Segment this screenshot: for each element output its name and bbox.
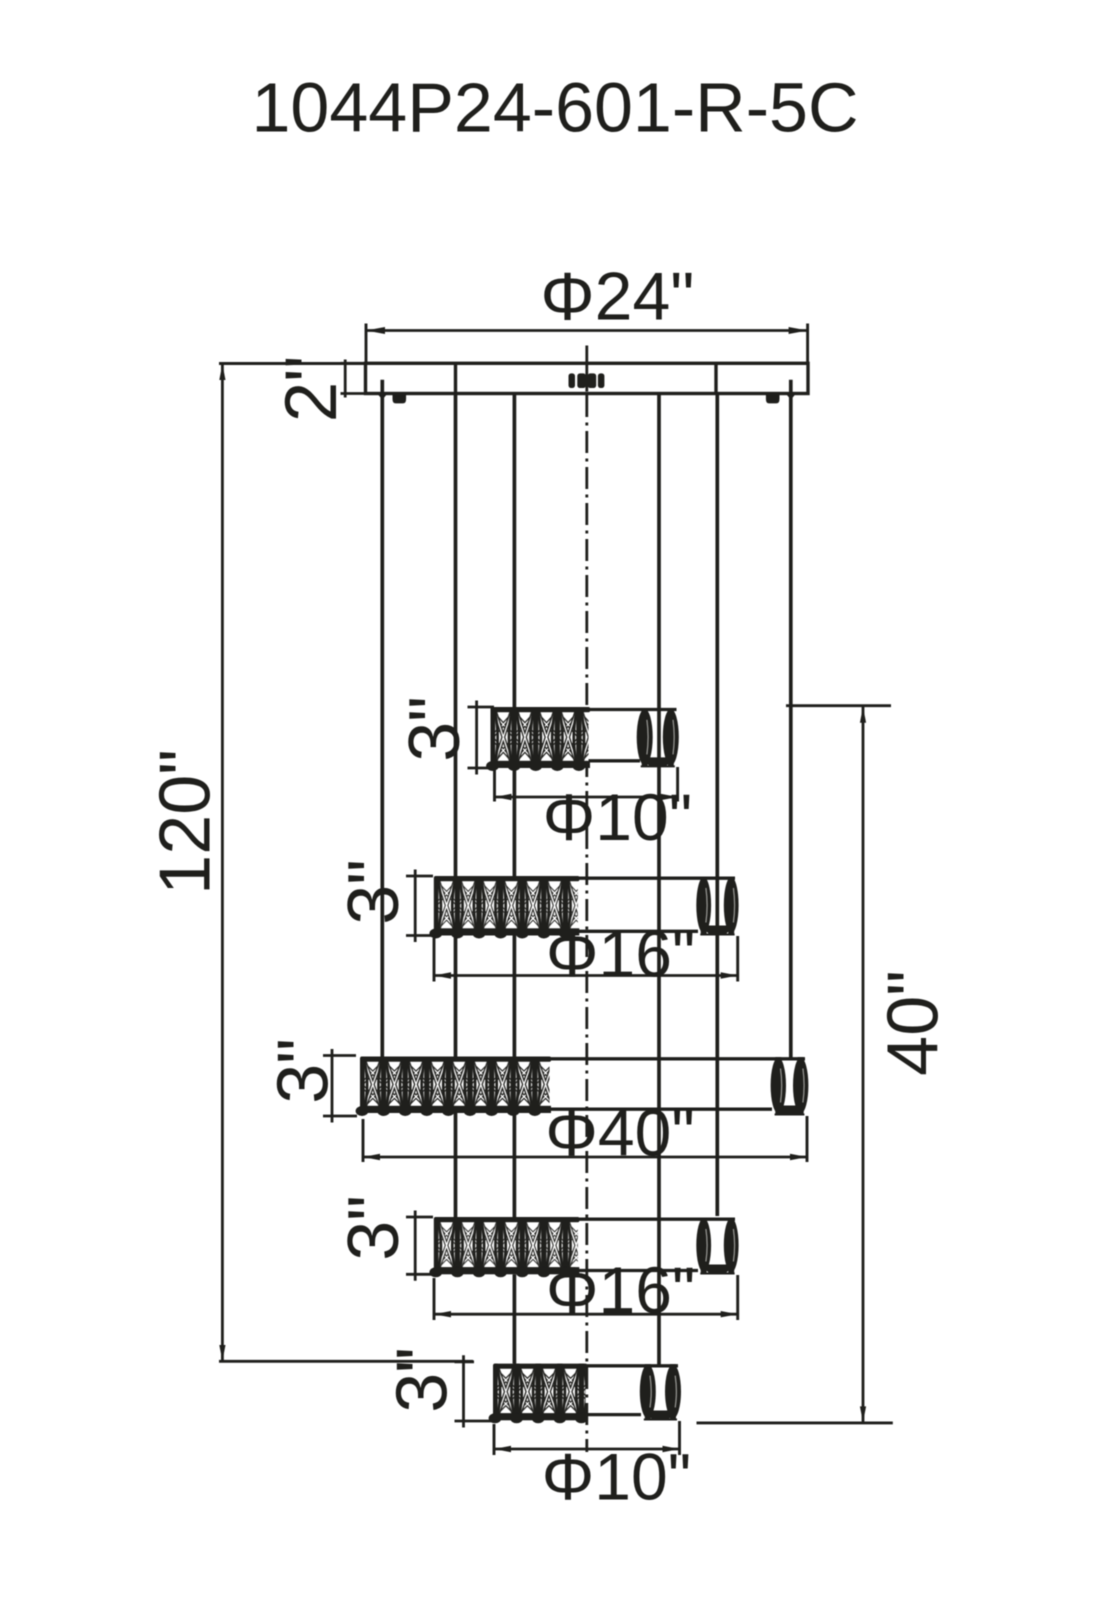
- canopy center connector: [569, 373, 576, 388]
- wire 4 (to bottom ring right): [657, 393, 661, 1365]
- bottom ring 10in top edge line: [586, 1364, 678, 1367]
- top ring 10in 3in dimension bracket: [475, 701, 478, 775]
- svg-text:Φ24": Φ24": [540, 259, 694, 335]
- svg-text:40": 40": [874, 970, 954, 1076]
- upper ring 16in 3in dimension bracket: [414, 870, 417, 943]
- svg-text:Φ16": Φ16": [546, 917, 696, 991]
- top ring 10in crystal band: [493, 707, 589, 768]
- top ring 10in top edge line: [589, 708, 677, 711]
- upper ring 16in diameter dimension: [433, 938, 436, 982]
- big ring 40in bottom edge line: [550, 1108, 773, 1111]
- dimension 120in bottom extension: [219, 1360, 473, 1363]
- svg-text:2": 2": [271, 356, 352, 423]
- wire 5 (to lower 16in ring right): [715, 393, 719, 1216]
- top ring 10in diameter dimension: [493, 770, 496, 802]
- svg-text:Φ16": Φ16": [546, 1253, 696, 1327]
- canopy divider left: [454, 363, 457, 393]
- svg-text:120": 120": [146, 749, 226, 895]
- dimension 40in bottom extension: [697, 1421, 893, 1424]
- wire 2 (to lower 16in ring left): [454, 393, 458, 1218]
- svg-text:3": 3": [334, 859, 414, 925]
- svg-text:1044P24-601-R-5C: 1044P24-601-R-5C: [251, 69, 858, 147]
- top ring 10in far-side lenses: [637, 709, 653, 766]
- lower ring 16in crystal band: [436, 1217, 578, 1274]
- dimension 2in bracket: [344, 360, 347, 398]
- canopy screw left: [392, 395, 406, 404]
- lower ring 16in 3in dimension bracket: [414, 1211, 417, 1281]
- wire 1 (to big ring left): [380, 380, 384, 1058]
- wire hanger right: [785, 393, 797, 400]
- upper ring 16in bottom edge line: [578, 930, 698, 933]
- big ring 40in diameter dimension: [362, 1119, 365, 1162]
- canopy plate: [366, 363, 809, 393]
- svg-text:3": 3": [383, 1347, 463, 1413]
- lower ring 16in bottom edge line: [578, 1269, 698, 1272]
- svg-text:Φ10": Φ10": [543, 780, 693, 854]
- bottom ring 10in 3in dimension bracket: [462, 1355, 465, 1427]
- bottom ring 10in diameter dimension: [493, 1424, 496, 1455]
- centerline stub above canopy: [585, 346, 588, 392]
- big ring 40in crystal band: [362, 1057, 550, 1114]
- lower ring 16in far-side lenses: [696, 1218, 711, 1272]
- dimension 120in line: [221, 365, 224, 1361]
- wire hanger left: [377, 393, 389, 400]
- svg-text:Φ10": Φ10": [542, 1440, 692, 1514]
- lower ring 16in top edge line: [578, 1218, 735, 1221]
- svg-text:3": 3": [264, 1038, 344, 1104]
- svg-text:3": 3": [334, 1195, 414, 1261]
- big ring 40in 3in dimension bracket: [331, 1049, 334, 1123]
- wire 3 (to bottom ring left): [513, 393, 517, 1364]
- bottom ring 10in crystal band: [495, 1364, 586, 1421]
- dimension phi24 extension left: [365, 324, 368, 364]
- big ring 40in far-side lenses: [771, 1058, 786, 1114]
- dimension 40in top extension: [786, 704, 891, 707]
- upper ring 16in far-side lenses: [696, 877, 711, 933]
- bottom ring 10in far-side lenses: [640, 1365, 656, 1419]
- canopy screw right: [766, 395, 780, 404]
- bottom ring 10in bottom edge line: [586, 1413, 641, 1416]
- canopy divider right: [714, 363, 717, 393]
- dimension phi24 line: [366, 329, 808, 332]
- svg-text:Φ40": Φ40": [545, 1096, 695, 1170]
- dimension phi24 extension right: [806, 324, 809, 364]
- lower ring 16in diameter dimension: [433, 1278, 436, 1320]
- centerline dash-dot: [585, 395, 588, 1452]
- big ring 40in top edge line: [550, 1057, 806, 1060]
- dimension 40in line: [862, 706, 865, 1423]
- wire 6 (to big ring right): [789, 380, 793, 1058]
- dimension 120in top extension: [219, 362, 366, 365]
- upper ring 16in top edge line: [578, 877, 735, 880]
- upper ring 16in crystal band: [436, 876, 578, 936]
- svg-text:3": 3": [395, 696, 475, 762]
- top ring 10in bottom edge line: [589, 759, 641, 762]
